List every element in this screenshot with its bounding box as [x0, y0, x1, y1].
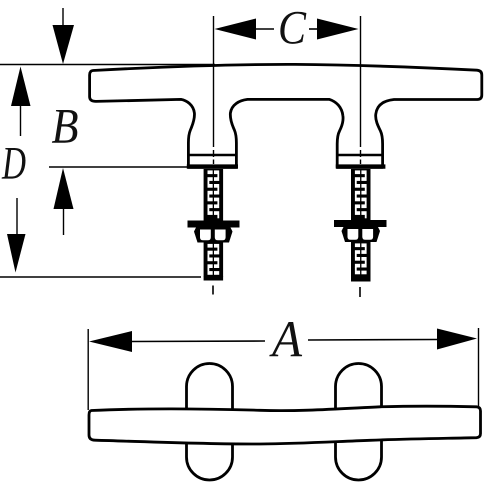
dimension B top arrow	[53, 8, 75, 64]
right boss (stadium) bottom part	[336, 441, 382, 480]
svg-text:A: A	[269, 312, 302, 369]
dimension D arrows	[7, 67, 31, 273]
dimension C line and arrows	[215, 19, 359, 40]
left stud upper threaded rod	[204, 169, 224, 221]
dimension C extension/centerline left	[212, 16, 215, 295]
dimension C extension/centerline right	[359, 16, 362, 297]
left hex nut	[194, 228, 233, 243]
right boss (stadium) top part	[336, 364, 382, 409]
left stud lower threaded rod	[204, 243, 224, 281]
dimension D bottom extension line	[0, 276, 201, 278]
right stud upper threaded rod	[351, 169, 371, 220]
left base plate lines	[187, 155, 238, 167]
dimension A left extension line	[87, 329, 89, 410]
svg-text:B: B	[52, 98, 79, 154]
right washer	[334, 220, 387, 227]
top extension line (top of cleat)	[0, 64, 215, 66]
dimension B bottom extension line	[49, 166, 190, 168]
right stud lower threaded rod	[351, 242, 371, 282]
dimension A line and arrows	[89, 329, 477, 353]
right base plate lines	[336, 155, 386, 167]
svg-text:C: C	[278, 2, 307, 55]
dimension B bottom arrow	[54, 168, 74, 235]
dimension A right extension line	[478, 328, 480, 407]
left washer	[188, 221, 240, 228]
left boss (stadium) bottom part	[187, 443, 233, 480]
left boss (stadium) top part	[187, 364, 233, 410]
right hex nut	[342, 227, 381, 242]
cleat bottom view slab	[89, 406, 481, 444]
svg-text:D: D	[1, 138, 26, 190]
cleat side view outline	[90, 64, 482, 167]
